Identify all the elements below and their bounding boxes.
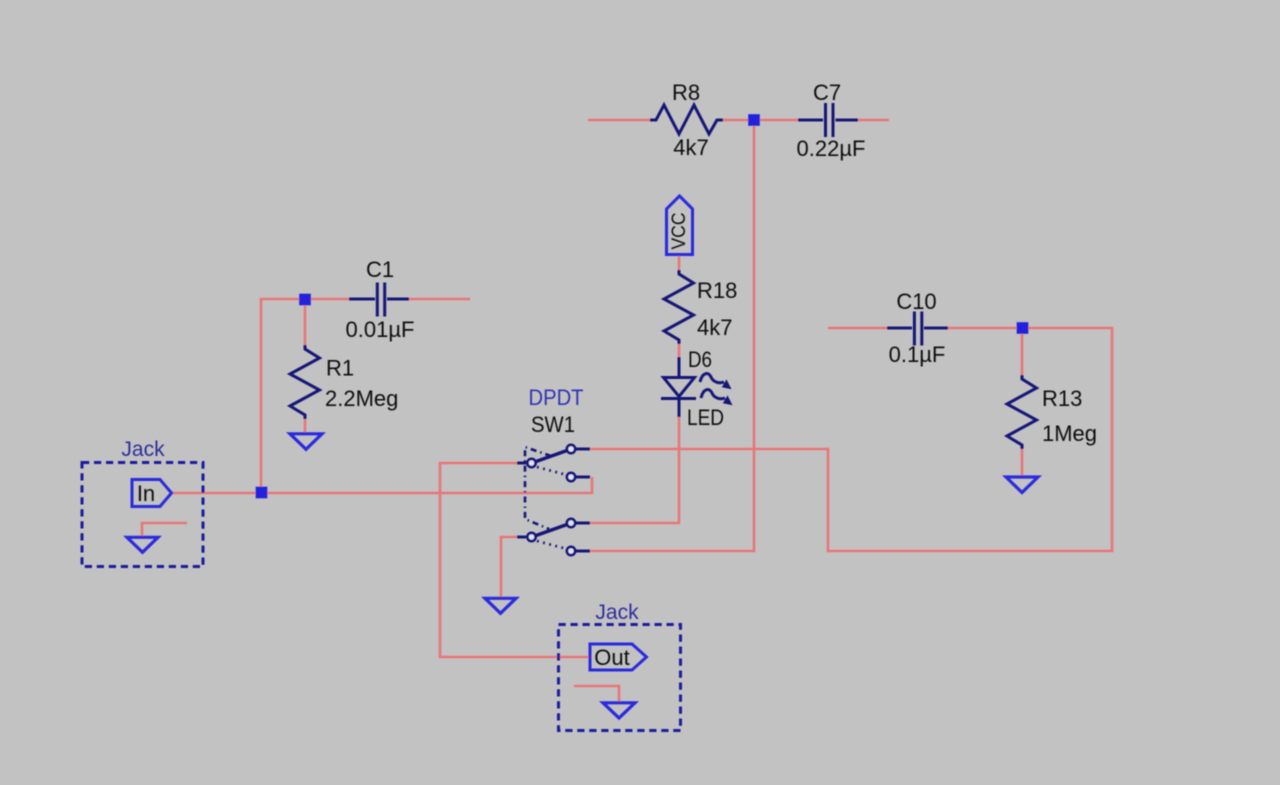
svg-text:Jack: Jack (595, 601, 639, 624)
svg-text:VCC: VCC (669, 213, 690, 250)
svg-text:2.2Meg: 2.2Meg (325, 386, 398, 411)
svg-text:Out: Out (594, 645, 629, 670)
svg-text:0.22µF: 0.22µF (797, 136, 866, 161)
resistor R1 (290, 345, 320, 419)
junction node C1/R1 (299, 294, 311, 306)
In tag (132, 480, 172, 507)
ground inside Out jack (603, 703, 635, 718)
wire C10 junction down to R13 (1021, 328, 1024, 376)
svg-text:1Meg: 1Meg (1042, 421, 1097, 446)
wire top net R8-C7 (588, 119, 889, 122)
junction node input (256, 487, 268, 499)
jack In dashed box (82, 463, 203, 567)
resistor R8 (650, 105, 723, 134)
svg-text:0.1µF: 0.1µF (889, 342, 946, 367)
LED D6 (661, 357, 696, 417)
Out tag (590, 644, 647, 670)
LED arrows (700, 374, 725, 399)
svg-text:R1: R1 (326, 356, 354, 381)
wire switch pole1 upper throw loop to C10/R13 (590, 328, 1112, 551)
wire C1 right stub (409, 298, 470, 301)
ground inside In jack (127, 537, 158, 552)
svg-text:R13: R13 (1042, 386, 1082, 411)
wire R13 to ground (1021, 446, 1024, 478)
wire LED to switch pole2 upper throw (590, 416, 679, 523)
svg-text:Jack: Jack (121, 438, 165, 461)
wire input junction up to C1 line (261, 299, 350, 493)
svg-text:4k7: 4k7 (673, 135, 708, 160)
wire C1 junction down to R1 (304, 299, 307, 346)
junction node R8/C7 (748, 114, 760, 126)
capacitor C7 (798, 103, 858, 137)
svg-text:C7: C7 (813, 80, 841, 105)
svg-text:C1: C1 (366, 257, 394, 282)
wire switch pole1 common to Out tag (440, 463, 592, 657)
wire Out jack ground stub (574, 686, 619, 702)
ground under switch (485, 598, 516, 613)
svg-text:In: In (137, 481, 155, 506)
wire In jack ground stub (142, 523, 187, 537)
svg-text:0.01µF: 0.01µF (346, 317, 415, 342)
svg-text:C10: C10 (896, 289, 936, 314)
ground under R13 (1006, 477, 1038, 493)
switch mechanical link (525, 447, 551, 529)
capacitor C10 (887, 312, 948, 346)
switch SW1 pole1 (517, 445, 590, 481)
capacitor C1 (349, 283, 409, 317)
junction node C10/R13 (1017, 322, 1029, 334)
svg-text:LED: LED (687, 405, 724, 430)
wire VCC to R18 (678, 254, 681, 271)
svg-text:R8: R8 (672, 80, 700, 105)
switch SW1 pole2 (517, 519, 590, 555)
svg-text:SW1: SW1 (531, 412, 575, 437)
wire R18 to LED (678, 343, 681, 358)
wire switch pole2 common to ground (501, 537, 517, 598)
jack Out dashed box (559, 625, 681, 731)
resistor R13 (1007, 375, 1037, 449)
wire R1 to ground (304, 416, 307, 434)
wire input net: In tag to switch pole1 lower throw (172, 477, 592, 493)
wire C10 line (828, 327, 888, 330)
svg-text:DPDT: DPDT (529, 385, 584, 410)
svg-text:R18: R18 (697, 278, 737, 303)
ground under R1 (290, 434, 322, 450)
svg-text:4k7: 4k7 (697, 315, 732, 340)
power flag VCC (667, 196, 693, 255)
wire from R8/C7 junction down to switch pole2 lower throw (590, 122, 754, 551)
svg-text:D6: D6 (688, 347, 712, 372)
resistor R18 (664, 270, 694, 344)
